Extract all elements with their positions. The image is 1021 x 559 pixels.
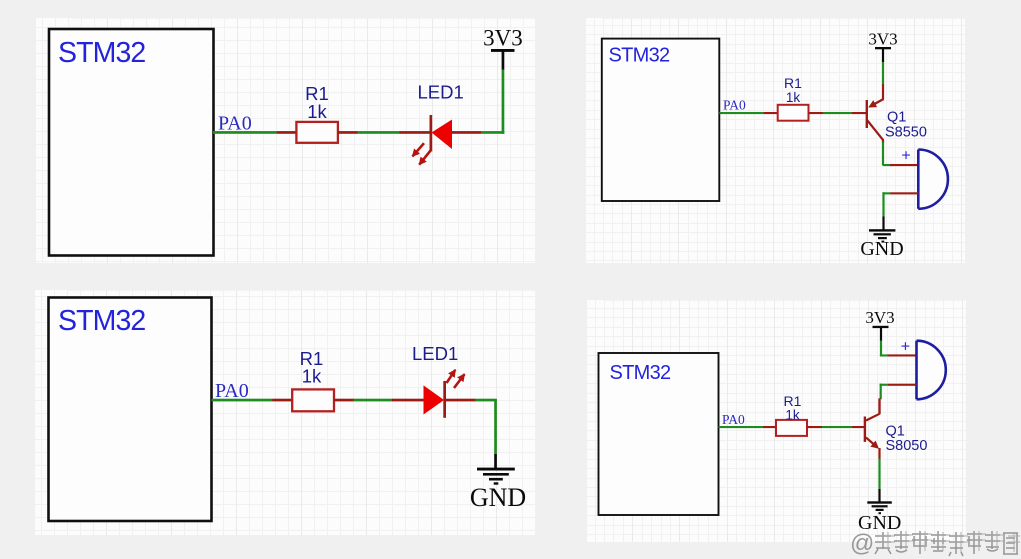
svg-text:1k: 1k: [307, 101, 327, 122]
svg-text:3V3: 3V3: [868, 30, 897, 49]
svg-text:STM32: STM32: [610, 362, 672, 384]
svg-text:STM32: STM32: [609, 45, 671, 67]
svg-text:STM32: STM32: [58, 37, 145, 69]
svg-text:3V3: 3V3: [483, 26, 523, 51]
svg-text:R1: R1: [784, 75, 802, 91]
svg-text:PA0: PA0: [218, 112, 252, 134]
svg-text:GND: GND: [860, 238, 903, 260]
svg-text:LED1: LED1: [418, 82, 464, 103]
svg-text:PA0: PA0: [723, 98, 746, 113]
svg-text:3V3: 3V3: [865, 308, 894, 327]
svg-text:S8550: S8550: [885, 125, 927, 141]
svg-text:Q1: Q1: [887, 110, 906, 126]
svg-text:+: +: [901, 148, 910, 165]
svg-text:@: @: [850, 530, 874, 557]
svg-text:GND: GND: [470, 483, 526, 512]
svg-text:LED1: LED1: [412, 343, 458, 364]
svg-text:S8050: S8050: [886, 438, 928, 454]
svg-text:+: +: [901, 339, 910, 356]
svg-text:1k: 1k: [785, 408, 800, 423]
svg-text:1k: 1k: [786, 90, 801, 105]
svg-text:PA0: PA0: [215, 380, 249, 402]
svg-text:PA0: PA0: [722, 412, 745, 427]
svg-text:STM32: STM32: [58, 305, 145, 337]
svg-text:1k: 1k: [302, 366, 322, 387]
